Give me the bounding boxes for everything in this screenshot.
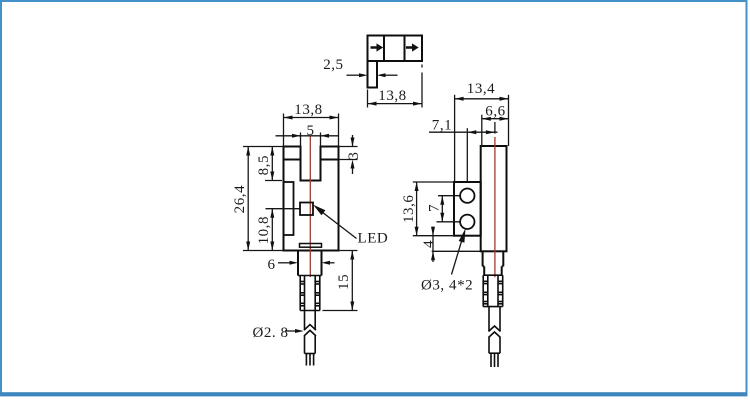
hole 1 (460, 189, 474, 203)
connector right view (483, 275, 503, 306)
svg-text:Ø3, 4*2: Ø3, 4*2 (421, 278, 473, 294)
svg-text:13,8: 13,8 (378, 88, 406, 104)
wire 2 (309, 354, 311, 366)
dim 13,6 (416, 182, 418, 236)
neck right (321, 251, 323, 276)
centerline tick (494, 122, 496, 134)
right wire 1 (490, 353, 492, 367)
right wire 2 (494, 353, 496, 367)
wire 3 (313, 354, 315, 366)
svg-text:3: 3 (346, 152, 362, 160)
svg-text:13,4: 13,4 (467, 81, 495, 97)
right cable upper (488, 307, 490, 331)
svg-text:13,8: 13,8 (294, 102, 322, 118)
top view emitter arrow (371, 43, 384, 51)
dim 26,4 (247, 147, 249, 251)
dim 8,5 (271, 147, 273, 181)
neck step 2 (484, 266, 502, 275)
hole 2 (460, 215, 474, 229)
inner rib rect (284, 182, 294, 235)
svg-text:8,5: 8,5 (256, 155, 272, 175)
cable upper (304, 311, 306, 330)
svg-text:6: 6 (267, 257, 275, 273)
top view divider 1 (383, 36, 385, 62)
connector body (298, 276, 322, 311)
mounting flange (454, 182, 481, 236)
svg-text:6,6: 6,6 (485, 103, 505, 119)
svg-text:2,5: 2,5 (323, 57, 343, 73)
right wire 3 (497, 353, 499, 367)
dim 3 (339, 146, 358, 148)
top view divider 2 (404, 36, 406, 62)
svg-text:13,6: 13,6 (401, 195, 417, 223)
top view receiver arrow (406, 43, 419, 51)
left lens window line (284, 159, 301, 161)
left view body outline (284, 147, 339, 251)
cable lower (304, 336, 306, 354)
right lens window line (321, 159, 339, 161)
top view tab (368, 61, 378, 88)
dim 7 (441, 196, 443, 222)
svg-text:26,4: 26,4 (232, 185, 248, 213)
right cable break chevron 2 (489, 332, 501, 338)
centerline left view (309, 136, 311, 277)
centerline right view (494, 137, 496, 277)
dim 2,5 lines (347, 74, 361, 76)
right cable break chevron 1 (489, 326, 501, 332)
svg-text:LED: LED (358, 230, 389, 246)
neck step 1 (483, 251, 504, 266)
svg-text:4: 4 (421, 240, 437, 248)
neck left (297, 251, 299, 276)
connector right ribs (483, 281, 503, 304)
right cable lower (488, 337, 490, 353)
svg-text:5: 5 (306, 123, 314, 139)
svg-text:Ø2. 8: Ø2. 8 (253, 325, 289, 341)
svg-text:7: 7 (427, 204, 443, 212)
svg-text:15: 15 (336, 274, 352, 290)
bottom slot (300, 244, 322, 248)
svg-text:7,1: 7,1 (432, 118, 452, 134)
svg-text:10,8: 10,8 (256, 216, 272, 244)
cable break chevron 1 (304, 325, 316, 331)
dim 15 (351, 251, 353, 311)
top view outline (368, 36, 423, 62)
connector ribs (300, 282, 320, 306)
cable break chevron 2 (304, 330, 316, 336)
right view body (481, 146, 507, 251)
dim 4 (432, 227, 434, 263)
LED window (300, 203, 313, 216)
wire 1 (305, 354, 307, 366)
dim 10,8 (271, 209, 273, 251)
